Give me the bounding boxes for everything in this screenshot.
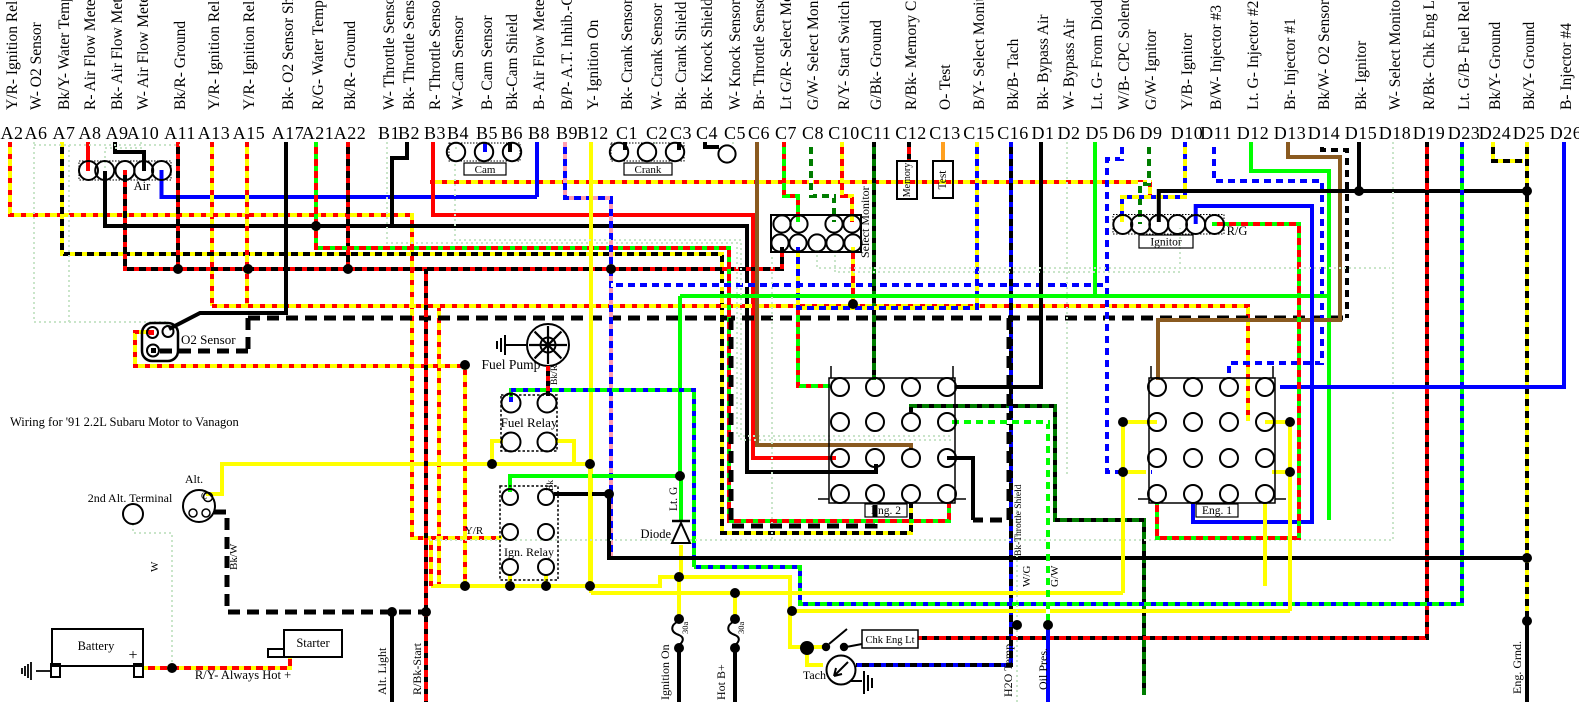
svg-text:C5: C5 bbox=[724, 123, 746, 143]
svg-text:C3: C3 bbox=[670, 123, 692, 143]
wire B2 Bk- throttle sensor bbox=[392, 142, 407, 226]
wire B8 B- air flow meter drop bbox=[535, 142, 539, 197]
junction eng1 y3 bbox=[1118, 467, 1128, 477]
svg-text:R/Bk- Memory Codes: R/Bk- Memory Codes bbox=[903, 0, 920, 110]
svg-text:Test: Test bbox=[937, 170, 949, 190]
svg-text:Bk- Air Flow Meter: Bk- Air Flow Meter bbox=[109, 0, 126, 110]
junction h2o bbox=[1012, 620, 1022, 630]
junction bkw alt bbox=[421, 607, 431, 617]
battery terminal 1 bbox=[51, 664, 60, 677]
wire A15 Y/R drop bbox=[245, 142, 249, 306]
wire W/B trace y285 bbox=[611, 283, 1107, 287]
wire D19 R/Bk- chk eng lt bbox=[918, 142, 1427, 638]
wire Lt G diode top bbox=[679, 476, 683, 520]
svg-text:C12: C12 bbox=[895, 123, 927, 143]
svg-text:Hot B+: Hot B+ bbox=[714, 664, 728, 700]
svg-text:C10: C10 bbox=[828, 123, 860, 143]
svg-text:C16: C16 bbox=[997, 123, 1029, 143]
svg-text:D26: D26 bbox=[1550, 123, 1579, 143]
wire Y/R bus y182 bbox=[430, 182, 1150, 197]
svg-text:D25: D25 bbox=[1513, 123, 1546, 143]
wire C1 Bk- crank sensor bbox=[623, 142, 627, 150]
svg-text:G/W: G/W bbox=[1049, 565, 1061, 587]
svg-text:Lt G/R- Select Monitor: Lt G/R- Select Monitor bbox=[778, 0, 795, 110]
wire hot-b+ black bbox=[733, 650, 737, 702]
junction ground 611 bbox=[606, 264, 616, 274]
junction D25 top bbox=[1522, 186, 1532, 196]
svg-text:B5: B5 bbox=[476, 123, 498, 143]
wire Y drop to y586 bbox=[588, 464, 592, 586]
svg-text:Lt. G: Lt. G bbox=[668, 487, 680, 511]
svg-text:D1: D1 bbox=[1032, 123, 1055, 143]
wire D25 Bk/Y- ground drop bbox=[1525, 142, 1529, 558]
svg-text:G/W- Ignitor: G/W- Ignitor bbox=[1143, 29, 1160, 110]
junction eng1 y1 bbox=[1118, 417, 1128, 427]
svg-text:A17: A17 bbox=[272, 123, 305, 143]
svg-text:Lt. G- From Diode: Lt. G- From Diode bbox=[1089, 0, 1106, 110]
svg-text:A21: A21 bbox=[302, 123, 335, 143]
wire C11 G/Bk- ground bbox=[872, 142, 876, 380]
wire C15 B/Y- select monitor bbox=[798, 142, 977, 308]
wire Bk air flow ground bus bbox=[105, 171, 876, 472]
fuse bottom dot Hot B+ bbox=[730, 643, 740, 653]
svg-text:A22: A22 bbox=[334, 123, 367, 143]
O2 pin 3 bbox=[147, 345, 159, 357]
svg-text:Wiring for '91 2.2L Subaru Mot: Wiring for '91 2.2L Subaru Motor to Vana… bbox=[10, 415, 240, 429]
wire D15 Bk- ignitor drop bbox=[1357, 142, 1361, 191]
svg-text:Bk-Throttle Shield: Bk-Throttle Shield bbox=[1014, 484, 1024, 556]
wire C6 Br- throttle sensor bbox=[757, 142, 911, 450]
wire R/Y select monitor to bus bbox=[851, 247, 855, 306]
wire Y diode bottom bbox=[679, 545, 683, 577]
svg-text:Starter: Starter bbox=[296, 636, 330, 650]
starter box bbox=[284, 630, 342, 657]
wire Eng1 yellow row2 left bbox=[1123, 422, 1157, 472]
switch big dot bbox=[800, 641, 814, 655]
svg-text:30a: 30a bbox=[736, 622, 746, 635]
wire C2 W- crank sensor bbox=[654, 142, 656, 150]
wire Y fuel relay right drop bbox=[555, 441, 574, 464]
svg-text:Select Monitor: Select Monitor bbox=[858, 186, 872, 258]
wire C10 R/Y- start switch drop bbox=[842, 142, 852, 222]
svg-text:Lt. G- Injector #2: Lt. G- Injector #2 bbox=[1245, 1, 1262, 110]
label box Crank bbox=[624, 163, 672, 175]
wire D5 Lt. G- from diode bbox=[1093, 142, 1097, 296]
wire D12 Lt. G- injector #2 bbox=[1251, 142, 1329, 520]
wire Bk eng2 to shield bbox=[947, 458, 973, 520]
wire A13 Y/R ignition relay drop bbox=[210, 142, 214, 306]
svg-text:D10: D10 bbox=[1171, 123, 1204, 143]
extra dotted cam W trace bbox=[455, 164, 952, 440]
svg-text:Eng. 1: Eng. 1 bbox=[1202, 505, 1232, 517]
svg-text:C8: C8 bbox=[802, 123, 824, 143]
svg-text:30a: 30a bbox=[680, 622, 690, 635]
svg-text:B3: B3 bbox=[424, 123, 446, 143]
wire Y alt bus y464 bbox=[206, 464, 590, 494]
svg-text:C2: C2 bbox=[646, 123, 668, 143]
junction d25 558 bbox=[1522, 553, 1532, 563]
svg-text:B- Air Flow Meter: B- Air Flow Meter bbox=[531, 0, 548, 110]
svg-text:A15: A15 bbox=[233, 123, 266, 143]
connector Cam bbox=[449, 143, 520, 161]
junction Y/R O2 bbox=[460, 360, 470, 370]
svg-text:A9: A9 bbox=[106, 123, 129, 143]
junction A15 ground bbox=[243, 264, 253, 274]
svg-text:C1: C1 bbox=[616, 123, 638, 143]
svg-text:W- Select Monitor: W- Select Monitor bbox=[1387, 0, 1404, 110]
svg-text:C4: C4 bbox=[696, 123, 718, 143]
svg-text:Bk- Throttle Sensor: Bk- Throttle Sensor bbox=[401, 0, 418, 110]
connector Select Monitor bbox=[771, 215, 861, 252]
wire A11 Bk/R- ground drop bbox=[176, 142, 180, 269]
wire Eng1 bottom yellow bbox=[1263, 503, 1267, 586]
svg-text:B1: B1 bbox=[378, 123, 400, 143]
junction y586 465 bbox=[460, 581, 470, 591]
wire Bk/W alternator bbox=[214, 512, 426, 612]
wire O2 shield dashed stub bbox=[160, 349, 248, 354]
svg-text:Fuel Relay: Fuel Relay bbox=[501, 415, 558, 430]
svg-text:D15: D15 bbox=[1345, 123, 1378, 143]
svg-text:Bk/Y- Ground: Bk/Y- Ground bbox=[1487, 21, 1504, 110]
wire A10 W- air flow meter bbox=[105, 142, 141, 168]
wire Lt G to ign relay bbox=[510, 476, 680, 492]
wire ignitor blue bbox=[1193, 206, 1312, 522]
fuse bottom dot Ignition On bbox=[674, 643, 684, 653]
svg-text:Bk/R- Ground: Bk/R- Ground bbox=[342, 21, 359, 110]
svg-text:D11: D11 bbox=[1200, 123, 1232, 143]
wire Alt light black bbox=[390, 612, 394, 702]
wire R/Bk- start bbox=[424, 269, 428, 702]
wire A21 R/G- water temp bbox=[316, 142, 949, 521]
svg-text:R/G: R/G bbox=[1227, 224, 1248, 238]
wire C13 O- test bbox=[941, 142, 945, 162]
svg-text:Bk/R: Bk/R bbox=[550, 364, 560, 385]
fuse bus dot Hot B+ bbox=[730, 588, 740, 598]
connector Air bbox=[79, 161, 171, 180]
extra dotted vertical A6b bbox=[68, 145, 70, 322]
svg-text:H2O Temp.: H2O Temp. bbox=[1001, 641, 1015, 697]
wire Bk bus y558 bbox=[554, 494, 1527, 558]
wire G/W oil sender bbox=[947, 422, 1048, 625]
svg-text:W-Cam Sensor: W-Cam Sensor bbox=[450, 15, 467, 110]
svg-text:Bk/W: Bk/W bbox=[228, 543, 240, 570]
svg-text:W- Air Flow Meter: W- Air Flow Meter bbox=[135, 0, 152, 110]
svg-text:Y- Ignition On: Y- Ignition On bbox=[585, 19, 602, 110]
wire B6 Bk- cam shield bbox=[508, 142, 512, 152]
wire D11 B/W- injector #3 bbox=[1214, 142, 1322, 378]
wire ignition-on black bbox=[677, 650, 681, 702]
wire ign relay bottom stubs bbox=[510, 575, 546, 586]
wire A8 R- air flow meter bbox=[86, 142, 90, 171]
svg-text:R/Y- Always Hot +: R/Y- Always Hot + bbox=[195, 668, 291, 682]
svg-text:Bk/R- Ground: Bk/R- Ground bbox=[172, 21, 189, 110]
svg-text:A10: A10 bbox=[127, 123, 160, 143]
junction w battery bbox=[167, 663, 177, 673]
label box Ignitor bbox=[1139, 235, 1193, 248]
svg-text:W- Throttle Sensor: W- Throttle Sensor bbox=[381, 0, 398, 110]
label box Eng. 1 bbox=[1196, 504, 1238, 517]
extra dotted trace select monitor bbox=[817, 250, 1390, 268]
junction A11 ground bbox=[173, 264, 183, 274]
wire Y hot-b+ fuse feed bbox=[733, 593, 737, 617]
extra dotted trace top left bbox=[34, 144, 180, 146]
component Tach bbox=[827, 656, 856, 685]
connector O2 Sensor bbox=[142, 323, 178, 361]
extra dotted trace mid bbox=[430, 539, 772, 541]
svg-text:R/Y- Start Switch: R/Y- Start Switch bbox=[836, 0, 853, 110]
svg-text:Battery: Battery bbox=[78, 639, 116, 653]
component Chk Eng Lt box bbox=[862, 630, 918, 648]
junction fuel relay yellow R bbox=[585, 459, 595, 469]
wire D6 W/B- CPC solenoid bbox=[1107, 142, 1152, 472]
svg-text:D23: D23 bbox=[1448, 123, 1481, 143]
svg-text:W/B- CPC Solenoid: W/B- CPC Solenoid bbox=[1116, 0, 1133, 110]
svg-text:D13: D13 bbox=[1274, 123, 1307, 143]
wire D23 Lt G/B- fuel relay bbox=[694, 142, 1462, 604]
svg-text:Ignitor: Ignitor bbox=[1150, 237, 1181, 249]
junction ign relay yl bbox=[505, 581, 515, 591]
svg-text:R- Air Flow Meter: R- Air Flow Meter bbox=[82, 0, 99, 110]
svg-text:Br- Throttle Sensor: Br- Throttle Sensor bbox=[751, 0, 768, 110]
svg-text:Bk- Bypass Air: Bk- Bypass Air bbox=[1035, 14, 1052, 110]
svg-text:O2 Sensor: O2 Sensor bbox=[181, 332, 236, 347]
svg-text:B9: B9 bbox=[556, 123, 578, 143]
svg-text:W- O2 Sensor: W- O2 Sensor bbox=[28, 21, 45, 110]
wire C12 R/Bk- memory codes bbox=[907, 142, 911, 162]
wire R/Y always hot bbox=[143, 656, 290, 668]
svg-text:G/W- Select Monitor: G/W- Select Monitor bbox=[805, 0, 822, 110]
wire B1 W- throttle sensor bbox=[387, 142, 952, 436]
wire Bk/R- ground bus bbox=[125, 170, 782, 269]
svg-text:D14: D14 bbox=[1308, 123, 1341, 143]
wire shield dashed bus y318 bbox=[248, 316, 1347, 321]
svg-text:Cam: Cam bbox=[475, 164, 496, 176]
svg-text:Eng. 2: Eng. 2 bbox=[871, 505, 901, 517]
svg-text:C15: C15 bbox=[963, 123, 995, 143]
connector Crank bbox=[611, 143, 684, 161]
svg-text:Bk-Cam Shield: Bk-Cam Shield bbox=[504, 14, 521, 110]
svg-text:Bk- Crank Shield: Bk- Crank Shield bbox=[673, 1, 690, 110]
svg-text:A11: A11 bbox=[164, 123, 196, 143]
wire Bk- throttle shield bbox=[973, 318, 1009, 520]
wire D1 Bk- bypass air bbox=[956, 142, 1041, 387]
svg-text:Bk/Y- Water Temp.: Bk/Y- Water Temp. bbox=[56, 0, 73, 110]
wire A9 Bk- air flow meter bbox=[115, 142, 144, 171]
svg-text:D2: D2 bbox=[1058, 123, 1081, 143]
svg-text:B/Y- Select Monitor: B/Y- Select Monitor bbox=[971, 0, 988, 110]
svg-text:Crank: Crank bbox=[635, 164, 662, 176]
svg-text:R/Bk-Start: R/Bk-Start bbox=[410, 642, 424, 695]
battery box bbox=[52, 629, 143, 666]
wire C3 Bk- crank shield bbox=[677, 142, 681, 150]
svg-text:Bk- Crank Sensor: Bk- Crank Sensor bbox=[619, 0, 636, 110]
battery terminal 2 bbox=[134, 664, 143, 677]
wire B4 W- cam sensor bbox=[455, 142, 457, 150]
junction y304 bbox=[848, 299, 858, 309]
svg-text:Lt. G/B- Fuel Relay: Lt. G/B- Fuel Relay bbox=[1456, 0, 1473, 110]
wire Y/R drop 439 bbox=[437, 306, 441, 586]
svg-text:Bk/Y- Ground: Bk/Y- Ground bbox=[1521, 21, 1538, 110]
wire B12 Y- ignition on bbox=[589, 142, 593, 593]
wire D18 W- select monitor bbox=[772, 142, 1393, 540]
junction alt light bbox=[387, 607, 397, 617]
svg-text:Diode: Diode bbox=[640, 527, 671, 541]
svg-text:D24: D24 bbox=[1479, 123, 1512, 143]
wire Y bus left elbow bbox=[431, 538, 502, 586]
extra dotted trace select monitor 2 bbox=[835, 228, 1180, 272]
junction eng1 y2 bbox=[1285, 417, 1295, 427]
wire D9 G/W- ignitor bbox=[1140, 142, 1149, 224]
svg-text:Bk- O2 Sensor Shield: Bk- O2 Sensor Shield bbox=[280, 0, 297, 110]
svg-text:R/G- Water Temp.: R/G- Water Temp. bbox=[310, 0, 327, 110]
wire Eng1 yellow left drop bbox=[1121, 472, 1125, 593]
wire A6 W- O2 sensor bbox=[34, 142, 167, 326]
wire B- air flow meter bus bbox=[162, 170, 538, 197]
svg-text:D6: D6 bbox=[1113, 123, 1136, 143]
svg-text:Fuel Pump: Fuel Pump bbox=[482, 357, 541, 372]
wire D24 Bk/Y- ground drop bbox=[1493, 142, 1523, 161]
wire Lt G bus y296 bbox=[680, 294, 1329, 298]
wire O2 shield dashed stub 2 bbox=[246, 318, 251, 351]
svg-text:Y/R- Ignition Relay: Y/R- Ignition Relay bbox=[4, 0, 21, 110]
wire Oil Pres blue bbox=[1046, 625, 1050, 702]
wire Bk/R fuel pump bbox=[546, 366, 550, 396]
fuse top dot Ignition On bbox=[674, 614, 684, 624]
svg-text:Y/R- Ignition Relay: Y/R- Ignition Relay bbox=[241, 0, 258, 110]
svg-text:Bk- Knock Shield: Bk- Knock Shield bbox=[699, 0, 716, 110]
svg-text:W- Bypass Air: W- Bypass Air bbox=[1061, 18, 1078, 110]
O2 pin 1 bbox=[147, 327, 158, 338]
svg-text:Alt. Light: Alt. Light bbox=[375, 647, 389, 695]
svg-text:D5: D5 bbox=[1086, 123, 1109, 143]
wire Y bus B y611 bbox=[792, 609, 1290, 613]
junction eng1 y4 bbox=[1285, 467, 1295, 477]
wire C5 W- knock sensor bbox=[732, 142, 734, 145]
svg-text:Br- Injector #1: Br- Injector #1 bbox=[1282, 18, 1299, 110]
svg-text:A7: A7 bbox=[53, 123, 76, 143]
svg-text:C: C bbox=[201, 491, 207, 501]
svg-text:Oil Pres.: Oil Pres. bbox=[1036, 648, 1050, 690]
svg-text:W- Crank Sensor: W- Crank Sensor bbox=[649, 2, 666, 110]
wire D10 Y/B- ignitor bbox=[1122, 142, 1185, 222]
O2 pin 2 bbox=[163, 326, 174, 337]
svg-text:B- Cam Sensor: B- Cam Sensor bbox=[479, 14, 496, 110]
svg-text:A2: A2 bbox=[1, 123, 24, 143]
svg-text:D18: D18 bbox=[1379, 123, 1412, 143]
svg-text:A6: A6 bbox=[25, 123, 48, 143]
svg-text:A13: A13 bbox=[198, 123, 231, 143]
svg-text:C11: C11 bbox=[861, 123, 892, 143]
wire D2 W- bypass air bbox=[1066, 142, 1068, 474]
svg-text:C13: C13 bbox=[929, 123, 961, 143]
svg-text:C6: C6 bbox=[748, 123, 770, 143]
junction oil bbox=[1043, 620, 1053, 630]
wire C8 G/W- select monitor bbox=[811, 142, 834, 222]
wire A2 Y/R ignition relay bbox=[10, 142, 502, 538]
wire Y bus switch bbox=[431, 577, 825, 647]
component Test box bbox=[933, 161, 953, 198]
svg-text:B/P- A.T. Inhib.-Grnd It: B/P- A.T. Inhib.-Grnd It bbox=[559, 0, 576, 110]
svg-text:D12: D12 bbox=[1237, 123, 1270, 143]
svg-text:G/Bk- Ground: G/Bk- Ground bbox=[868, 20, 885, 110]
svg-text:Memory: Memory bbox=[902, 163, 913, 197]
component Diode bbox=[672, 523, 690, 543]
junction D15 bbox=[1354, 186, 1364, 196]
wire B9 B/P- A.T. inhibitor bbox=[565, 142, 611, 558]
junction eng grnd bbox=[1522, 616, 1532, 626]
svg-text:B8: B8 bbox=[528, 123, 550, 143]
component Ign. Relay bbox=[500, 486, 558, 580]
svg-text:Bk- Ignitor: Bk- Ignitor bbox=[1353, 40, 1370, 110]
svg-text:+: + bbox=[128, 647, 137, 664]
svg-text:D19: D19 bbox=[1413, 123, 1446, 143]
wire A22 Bk/R- ground drop bbox=[346, 142, 350, 269]
wire D14 Bk/W- O2 sensor grnd bbox=[1322, 142, 1347, 318]
svg-text:C7: C7 bbox=[775, 123, 797, 143]
wire Y/R bus y306 bbox=[212, 306, 1248, 421]
svg-text:Chk Eng Lt: Chk Eng Lt bbox=[866, 635, 915, 646]
svg-text:2nd Alt. Terminal: 2nd Alt. Terminal bbox=[88, 491, 173, 505]
wire D26 B- injector #4 bbox=[1280, 142, 1564, 387]
svg-text:R- Throttle Sensor: R- Throttle Sensor bbox=[427, 0, 444, 110]
junction ign relay yr bbox=[541, 581, 551, 591]
svg-text:B12: B12 bbox=[577, 123, 609, 143]
connector Ignitor bbox=[1113, 215, 1224, 235]
junction A21/black bus bbox=[311, 221, 321, 231]
wire C4 Bk- knock shield bbox=[705, 142, 719, 147]
component 2nd Alt Terminal bbox=[123, 504, 143, 524]
svg-text:Y/R- Ignition Relay: Y/R- Ignition Relay bbox=[206, 0, 223, 110]
svg-text:Bk/W- O2 Sensor Grnd: Bk/W- O2 Sensor Grnd bbox=[1316, 0, 1333, 110]
junction diode green bbox=[675, 471, 685, 481]
svg-text:Bk: Bk bbox=[546, 480, 556, 491]
wire W/G sender bbox=[1016, 490, 1018, 702]
wire D13 Br- injector #1 bbox=[1158, 142, 1340, 380]
svg-text:Y/B- Ignitor: Y/B- Ignitor bbox=[1179, 32, 1196, 110]
svg-text:W/G: W/G bbox=[1021, 566, 1033, 587]
connector knock sensor bbox=[718, 145, 735, 162]
svg-text:Alt.: Alt. bbox=[185, 472, 203, 486]
component Memory box bbox=[897, 161, 917, 199]
wire Bk dashed to Eng2 bbox=[731, 318, 875, 526]
svg-text:Air: Air bbox=[134, 179, 152, 193]
wire Y tach feed bbox=[807, 648, 823, 665]
connector Eng. 1 bbox=[1149, 378, 1275, 503]
wire D25 Bk/Y lower bbox=[1525, 558, 1529, 621]
svg-text:B2: B2 bbox=[398, 123, 420, 143]
wire Y fuel relay left drop bbox=[492, 441, 503, 464]
wire G/Bk loop to bottom bbox=[911, 406, 1144, 695]
svg-text:Tach: Tach bbox=[803, 668, 826, 682]
wire Bk ignitor bus y191 bbox=[1159, 191, 1527, 222]
svg-text:R/Bk- Chk Eng Lt: R/Bk- Chk Eng Lt bbox=[1421, 0, 1438, 110]
label box Cam bbox=[464, 163, 506, 175]
wire Lt G/B relay feed bbox=[511, 390, 694, 567]
wire C16 Bk/B- tach bbox=[856, 142, 1011, 665]
svg-text:D9: D9 bbox=[1140, 123, 1163, 143]
wire Eng1 yellow row2 right bbox=[1265, 422, 1290, 472]
connector Eng. 2 bbox=[829, 378, 955, 503]
wire Lt G/R to Eng.2 bbox=[798, 250, 830, 386]
component Alt bbox=[183, 490, 215, 522]
wire C7 Lt G/R- select monitor bbox=[784, 142, 798, 222]
wire A7 Bk/Y- Water Temp bus bbox=[62, 142, 911, 533]
wire Eng1 yellow right drop bbox=[1288, 472, 1292, 611]
wire Eng Grnd black bbox=[1525, 621, 1529, 702]
junction y586 589 bbox=[585, 581, 595, 591]
wire Y ignition-on fuse feed bbox=[677, 577, 681, 617]
svg-text:Eng. Grnd.: Eng. Grnd. bbox=[1510, 641, 1524, 694]
